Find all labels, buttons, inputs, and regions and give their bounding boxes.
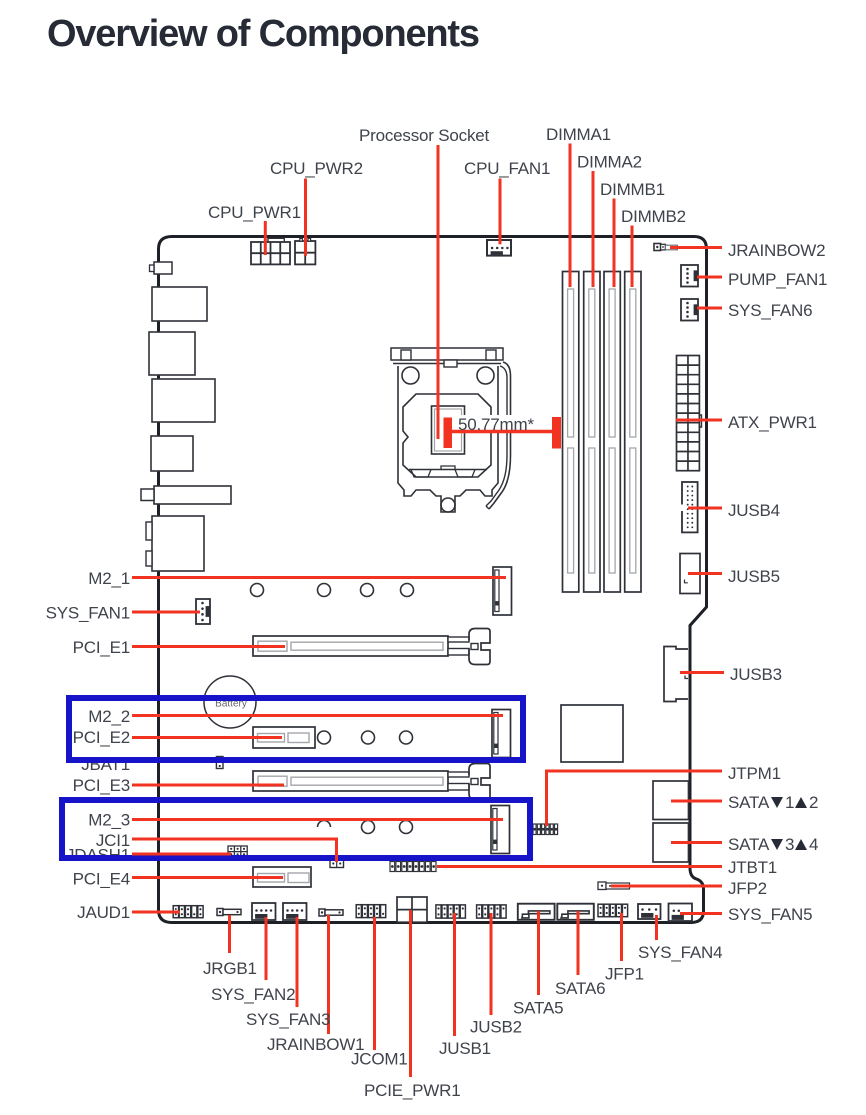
svg-text:SATA5: SATA5 <box>513 999 563 1018</box>
slot PCI_E2 <box>253 727 315 748</box>
M2_3 standoff holes <box>318 821 413 834</box>
connector M2_1 <box>493 567 512 615</box>
leader JUSB3 <box>680 671 724 674</box>
svg-text:SATA: SATA <box>728 793 770 812</box>
connector M2_2 <box>492 710 511 758</box>
leader PCIE_PWR1 <box>409 910 412 1077</box>
DIMM slot DIMMB1 <box>604 272 620 593</box>
DIMM slot DIMMA2 <box>584 272 600 593</box>
slot PCI_E3 <box>253 771 448 791</box>
leader SATA5 <box>537 911 540 995</box>
motherboard outline <box>159 237 707 923</box>
rear IO box1 <box>152 287 207 321</box>
leader SYS_FAN1 <box>132 611 200 614</box>
connector JRGB1 <box>217 909 241 916</box>
svg-text:SYS_FAN3: SYS_FAN3 <box>246 1010 330 1029</box>
connector SYS_FAN4 <box>638 904 661 919</box>
svg-text:Overview of Components: Overview of Components <box>47 13 479 55</box>
svg-text:M2_3: M2_3 <box>88 811 130 830</box>
dimension 50.77mm <box>444 417 562 449</box>
leader SYS_FAN4 <box>655 915 658 940</box>
connector JTBT1 <box>390 862 436 872</box>
svg-text:JUSB5: JUSB5 <box>728 567 780 586</box>
connector JBAT1 <box>216 757 223 769</box>
connector SATA3/4 <box>653 823 689 862</box>
leader ATX_PWR1 <box>676 419 722 422</box>
svg-text:50.77mm*: 50.77mm* <box>458 415 534 434</box>
connector SYS_FAN2 <box>252 903 276 920</box>
PCI_E1 latch <box>448 629 490 665</box>
leader JAUD1 <box>132 911 180 914</box>
leader CPU_PWR2 <box>304 179 307 256</box>
svg-text:CPU_PWR1: CPU_PWR1 <box>208 203 301 222</box>
connector JUSB2 <box>477 905 507 918</box>
leader SYS_FAN2 <box>265 917 268 980</box>
svg-text:SATA6: SATA6 <box>555 979 605 998</box>
leader JTPM1 <box>546 770 722 773</box>
leader M2_2 <box>132 714 503 717</box>
slot PCI_E4 <box>253 867 311 887</box>
svg-text:4: 4 <box>809 835 818 854</box>
leader JBAT1 (under frame) <box>132 759 219 762</box>
connector JFP1 <box>598 904 628 917</box>
svg-text:M2_2: M2_2 <box>88 707 130 726</box>
svg-text:SYS_FAN1: SYS_FAN1 <box>46 604 130 623</box>
svg-text:JTPM1: JTPM1 <box>728 764 781 783</box>
leader SATA6 <box>577 911 580 975</box>
processor socket U1 <box>391 348 511 512</box>
connector JUSB4 <box>681 482 698 532</box>
leader SYS_FAN3 <box>296 917 299 1007</box>
svg-text:SYS_FAN5: SYS_FAN5 <box>728 905 812 924</box>
leader CPU_FAN1 <box>499 179 502 245</box>
connector JTPM1 <box>533 824 558 835</box>
leader JUSB5 <box>688 572 722 575</box>
connector M2_3 <box>491 806 510 854</box>
leader CPU_PWR1 <box>264 221 267 255</box>
svg-text:2: 2 <box>809 793 818 812</box>
leader PCI_E1 <box>132 645 285 648</box>
connector SYS_FAN1 <box>196 599 210 624</box>
connector JCI1 <box>330 860 344 868</box>
connector JUSB3 <box>664 647 688 702</box>
rear IO box2 <box>149 332 195 375</box>
svg-text:PCI_E4: PCI_E4 <box>73 870 130 889</box>
svg-text:DIMMA1: DIMMA1 <box>546 125 611 144</box>
leader PCI_E2 <box>132 736 282 739</box>
svg-text:PCI_E2: PCI_E2 <box>73 728 130 747</box>
PCI_E3 latch <box>448 764 490 800</box>
connector SYS_FAN3 <box>283 903 307 920</box>
leader SYS_FAN5 <box>680 912 722 915</box>
label SATA 3 4 <box>728 835 818 854</box>
leader PUMP_FAN1 <box>697 276 722 279</box>
rear IO box4 <box>151 436 193 471</box>
leader DIMMA1 <box>569 144 572 288</box>
rear IO box3 <box>152 379 215 422</box>
connector PUMP_FAN1 <box>681 265 698 287</box>
connector PCIE_PWR1 <box>397 897 427 922</box>
connector JRAINBOW2 <box>654 244 677 251</box>
connector JCOM1 <box>356 905 385 918</box>
svg-text:Processor Socket: Processor Socket <box>359 126 489 145</box>
label SATA 1 2 <box>728 793 818 812</box>
leader JRAINBOW2 <box>670 246 722 249</box>
svg-text:PCI_E3: PCI_E3 <box>73 776 130 795</box>
leader M2_3 <box>132 818 503 821</box>
leader PCI_E4 <box>132 876 283 879</box>
svg-text:JAUD1: JAUD1 <box>77 903 130 922</box>
svg-text:JRAINBOW2: JRAINBOW2 <box>728 241 825 260</box>
leader JFP2 <box>611 885 722 888</box>
svg-text:JCI1: JCI1 <box>96 831 130 850</box>
svg-text:CPU_FAN1: CPU_FAN1 <box>464 159 550 178</box>
battery <box>204 676 256 728</box>
leader Processor Socket <box>437 145 440 439</box>
svg-text:3: 3 <box>785 835 794 854</box>
svg-text:JTBT1: JTBT1 <box>728 858 777 877</box>
svg-text:SYS_FAN2: SYS_FAN2 <box>211 985 295 1004</box>
leader JUSB1 <box>453 913 456 1036</box>
leader DIMMB2 <box>631 226 634 288</box>
leader JRGB1 <box>228 915 231 953</box>
leader SATA12 <box>671 800 722 803</box>
highlight frame M2_3 <box>62 800 530 858</box>
leader JUSB2 <box>490 913 493 1015</box>
chipset <box>561 705 623 762</box>
leader JUSB4 <box>688 507 722 510</box>
leader SATA34 <box>671 841 722 844</box>
connector CPU_FAN1 <box>487 240 511 256</box>
connector SYS_FAN6 <box>681 299 698 321</box>
svg-text:PCIE_PWR1: PCIE_PWR1 <box>364 1081 460 1100</box>
svg-text:JUSB4: JUSB4 <box>728 501 780 520</box>
leader JCOM1 <box>373 917 376 1050</box>
svg-text:PUMP_FAN1: PUMP_FAN1 <box>728 270 827 289</box>
svg-text:CPU_PWR2: CPU_PWR2 <box>270 159 363 178</box>
connector SATA6 <box>557 904 594 920</box>
connector SATA1/2 <box>653 781 689 820</box>
svg-text:JUSB1: JUSB1 <box>439 1039 491 1058</box>
svg-text:JRAINBOW1: JRAINBOW1 <box>267 1035 364 1054</box>
connector CPU_PWR2 <box>295 241 315 264</box>
leader SYS_FAN6 <box>697 307 722 310</box>
connector JUSB1 <box>436 905 466 918</box>
M2_2 standoff holes <box>318 731 413 744</box>
svg-text:SYS_FAN6: SYS_FAN6 <box>728 301 812 320</box>
leader PCI_E3 <box>132 784 284 787</box>
rear IO box5 <box>154 486 231 504</box>
M2_1 standoff holes <box>251 584 414 597</box>
svg-text:M2_1: M2_1 <box>88 569 130 588</box>
leader DIMMB1 <box>613 199 616 288</box>
slot PCI_E1 <box>253 636 448 656</box>
leader JDASH1 <box>132 853 231 856</box>
svg-text:JRGB1: JRGB1 <box>203 959 257 978</box>
leader JFP1 <box>620 913 623 961</box>
connector JFP2 <box>598 882 630 890</box>
leader JCI1 <box>132 838 338 841</box>
svg-text:JUSB3: JUSB3 <box>730 665 782 684</box>
svg-text:1: 1 <box>785 793 794 812</box>
connector CPU_PWR1 <box>268 238 284 242</box>
rear IO box6 <box>152 516 204 571</box>
connector JDASH1 <box>228 846 247 857</box>
svg-text:SYS_FAN4: SYS_FAN4 <box>638 943 722 962</box>
leader DIMMA2 <box>592 171 595 287</box>
svg-text:DIMMB1: DIMMB1 <box>600 180 665 199</box>
connector JRAINBOW1 <box>319 909 343 916</box>
svg-text:ATX_PWR1: ATX_PWR1 <box>728 413 817 432</box>
svg-text:JFP2: JFP2 <box>728 879 767 898</box>
svg-text:DIMMA2: DIMMA2 <box>577 153 642 172</box>
leader JTBT1 <box>437 865 722 868</box>
connector JAUD1 <box>173 906 203 918</box>
svg-text:JFP1: JFP1 <box>605 965 644 984</box>
connector SATA5 <box>518 904 555 920</box>
svg-text:DIMMB2: DIMMB2 <box>621 207 686 226</box>
leader JRAINBOW1 <box>327 915 330 1034</box>
svg-text:JUSB2: JUSB2 <box>470 1018 522 1037</box>
highlight frame M2_2/PCI_E2 <box>69 698 523 760</box>
leader M2_1 <box>132 576 506 579</box>
svg-text:JCOM1: JCOM1 <box>351 1050 408 1069</box>
connector SYS_FAN5 <box>669 904 693 922</box>
rear IO tab <box>154 262 172 274</box>
DIMM slot DIMMA1 <box>563 272 579 593</box>
connector ATX_PWR1 <box>677 356 702 471</box>
DIMM slot DIMMB2 <box>625 272 641 593</box>
connector JUSB5 <box>680 554 700 594</box>
svg-text:PCI_E1: PCI_E1 <box>73 638 130 657</box>
svg-text:SATA: SATA <box>728 835 770 854</box>
